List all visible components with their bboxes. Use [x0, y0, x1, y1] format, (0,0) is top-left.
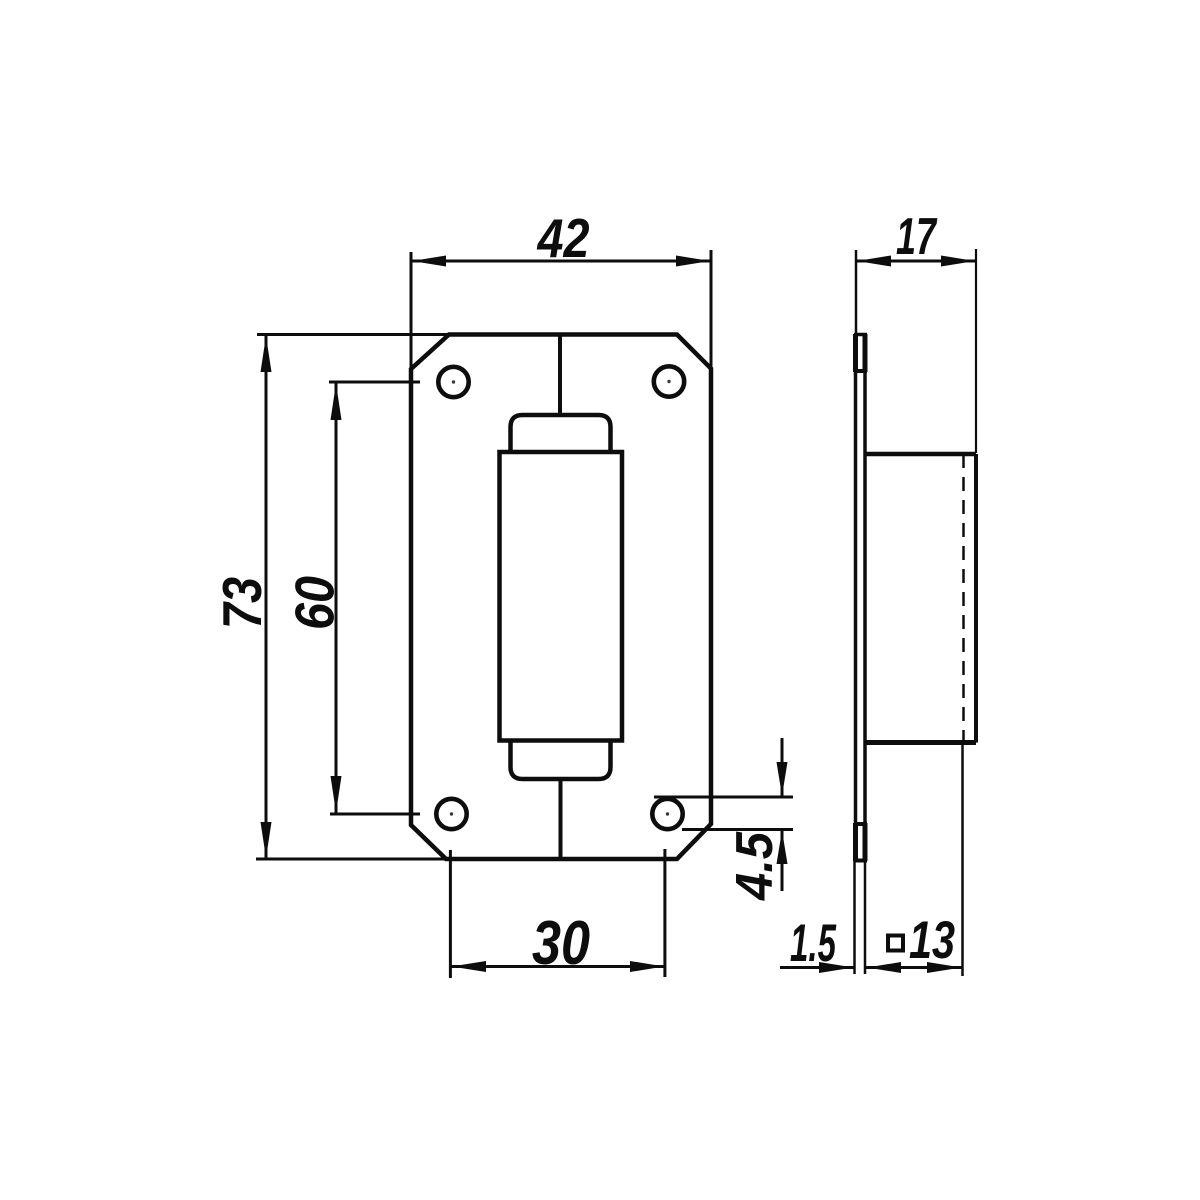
dim 13 line	[866, 966, 962, 969]
dim 13 arrow left	[867, 962, 901, 973]
side view box top edge	[865, 452, 976, 457]
dim 17 extension left	[855, 250, 858, 333]
hole bottom-left	[436, 799, 466, 829]
svg-text:30: 30	[532, 909, 590, 978]
dim 4.5 arrow down	[777, 762, 788, 796]
side view box right edge	[974, 454, 978, 743]
dim 17 line	[856, 260, 976, 263]
svg-text:17: 17	[896, 208, 937, 266]
dim 17 arrow left	[857, 256, 891, 267]
svg-text:60: 60	[284, 576, 346, 630]
dim 73 extension bottom	[256, 858, 446, 861]
dim 30 extension left	[449, 850, 452, 978]
dim 30 line	[450, 965, 665, 968]
side view plate lower crossbar	[854, 822, 867, 826]
dim 60 line	[335, 382, 338, 814]
center line upper	[558, 335, 562, 416]
dim 13 arrow right	[927, 962, 962, 973]
dim 4.5 extension bottom	[682, 828, 793, 831]
dim 60 extension bottom	[330, 813, 420, 816]
side view plate bottom edge	[854, 859, 867, 863]
dim 73 arrow up	[261, 336, 272, 372]
side view box bottom edge	[865, 740, 976, 745]
side plate end-cap thickening	[853, 334, 858, 372]
side view plate top edge	[854, 333, 867, 337]
dim 73 extension top	[257, 333, 449, 336]
svg-text:13: 13	[909, 911, 955, 970]
dim 42 line	[411, 260, 711, 263]
dim 42 arrow left	[412, 256, 446, 267]
svg-text:1.5: 1.5	[790, 914, 837, 973]
svg-text:42: 42	[537, 207, 590, 269]
side view dashed recess line	[962, 454, 965, 743]
dim 42 arrow right	[676, 256, 710, 267]
dim 1.5 leader line	[780, 966, 854, 969]
svg-text:4.5: 4.5	[726, 831, 784, 901]
dim 30 extension right	[663, 849, 666, 977]
hole bottom-right	[652, 799, 682, 829]
dim 60 extension top	[329, 381, 420, 384]
square symbol for 13	[888, 936, 903, 951]
handle top cap	[511, 415, 611, 452]
dim 4.5 extension top	[654, 796, 793, 799]
dim 42 extension right	[710, 250, 713, 369]
dim 1.5 extension left	[853, 861, 856, 974]
dim 4.5 lower leader	[781, 830, 784, 892]
svg-text:73: 73	[211, 577, 273, 629]
dim 4.5 upper leader	[781, 738, 784, 797]
dim 13 extension right	[961, 743, 964, 976]
dim 1.5 arrow	[819, 962, 854, 973]
side view plate right edge	[863, 334, 867, 861]
dim 73 arrow down	[261, 822, 272, 858]
dim 1.5 extension right	[864, 861, 867, 974]
hole top-left	[438, 367, 468, 397]
dim 17 extension right	[975, 249, 977, 453]
front view plate outline	[411, 335, 711, 860]
dim 17 arrow right	[941, 256, 975, 267]
side view plate upper crossbar	[854, 369, 867, 373]
center line lower	[559, 779, 563, 859]
dim 30 arrow right	[630, 961, 664, 972]
hole top-right	[654, 366, 684, 396]
dim 42 extension left	[410, 252, 413, 370]
handle body	[500, 452, 623, 741]
dim 73 line	[265, 335, 268, 860]
side view plate left edge	[854, 334, 858, 861]
handle bottom cap	[511, 741, 611, 780]
dim 30 arrow left	[452, 961, 487, 972]
hole center dots	[450, 380, 671, 816]
dim 60 arrow down	[331, 776, 342, 813]
dim 4.5 arrow up	[777, 831, 788, 865]
dim 60 arrow up	[331, 384, 342, 421]
